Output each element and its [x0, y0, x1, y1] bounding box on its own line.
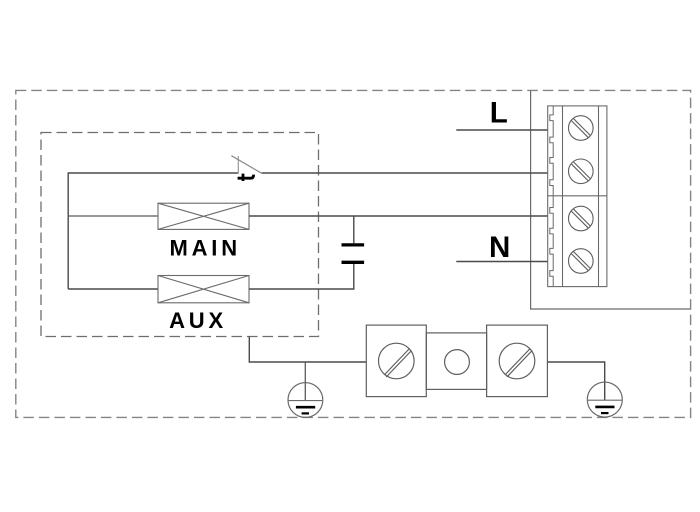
wire: main winding to terminal screw 3: [249, 215, 548, 217]
wire: stem to left ground: [304, 362, 306, 400]
wire: N input stub: [456, 261, 548, 263]
connector bar between lugs: [426, 333, 486, 390]
screw terminal 4 (N): [569, 249, 594, 274]
ground symbol right: [587, 382, 622, 417]
capacitor bottom lead: [353, 264, 355, 290]
thermal switch blade: [231, 156, 261, 174]
terminal block castellated edge: [550, 106, 553, 287]
wire: left vertical bus: [67, 173, 69, 289]
wire: bus to main winding: [68, 215, 158, 217]
wire: aux winding to capacitor: [249, 288, 354, 290]
wire: top run to switch: [68, 172, 239, 174]
thermal switch contact post: [237, 156, 239, 174]
screw terminal 1 (L): [569, 116, 594, 141]
svg-text:L: L: [490, 96, 508, 129]
screw terminal 3: [569, 206, 594, 231]
wire: switch to terminal screw 2: [262, 172, 548, 174]
svg-text:AUX: AUX: [169, 308, 227, 333]
wire: chassis drop from winding box: [249, 337, 366, 363]
aux winding AUX: [158, 276, 249, 303]
svg-text:MAIN: MAIN: [169, 235, 240, 260]
motor windings dashed box: [41, 133, 319, 337]
wire: lug to right ground: [547, 362, 604, 400]
terminal block TB1 body: [548, 106, 607, 287]
wire: bus to aux winding: [68, 288, 158, 290]
capacitor top lead: [353, 216, 355, 243]
motor enclosure dashed box: [16, 90, 691, 417]
wire: L input stub: [456, 129, 548, 131]
svg-text:N: N: [489, 231, 510, 264]
terminal lug left (earth terminal): [366, 325, 426, 397]
ground symbol left: [288, 383, 323, 418]
screw terminal 2: [569, 159, 594, 184]
main winding MAIN: [158, 203, 249, 229]
terminal lug right (earth terminal): [487, 325, 548, 397]
capacitor C1 plates: [342, 245, 365, 262]
terminal box solid boundary: [531, 91, 691, 309]
thermal element symbol: [238, 174, 254, 181]
